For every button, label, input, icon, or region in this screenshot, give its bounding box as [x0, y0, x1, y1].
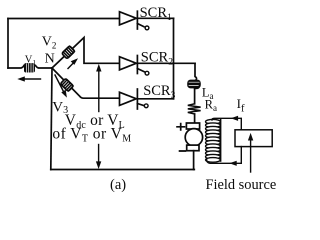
wire left rail [7, 19, 9, 69]
svg-text:SCR3: SCR3 [143, 83, 175, 101]
wire top rail [8, 18, 120, 20]
measurement arrow up [98, 70, 100, 112]
current arrow phase A [22, 78, 41, 80]
wire Ra to motor [194, 114, 196, 123]
svg-text:(a): (a) [110, 177, 126, 193]
wire SCR1 cathode to right rail [137, 17, 173, 19]
inductor La [187, 80, 201, 89]
motor M armature [186, 123, 199, 129]
winding V3 [60, 78, 73, 91]
svg-text:SCR1: SCR1 [140, 5, 172, 23]
current arrow phase C [55, 75, 64, 92]
svg-text:SCR2: SCR2 [141, 50, 173, 68]
SCR1 [120, 12, 137, 25]
field source arrow [250, 139, 252, 173]
field source box [235, 130, 272, 147]
SCR2 [120, 57, 137, 70]
svg-text:Ra: Ra [205, 98, 217, 114]
wire branch V3 [52, 68, 120, 98]
wire SCR2 cathode and load tap [137, 62, 195, 64]
wire box bottom to coil [207, 147, 242, 164]
field current arrow head bottom [229, 161, 236, 166]
label minus [179, 150, 187, 152]
current arrow phase B [68, 62, 75, 69]
svg-text:N: N [45, 52, 55, 67]
wire bottom rail [51, 169, 195, 171]
svg-text:Field source: Field source [206, 177, 277, 193]
wire right rail [173, 18, 175, 99]
svg-text:of VT or VM: of VT or VM [52, 126, 131, 145]
node N [51, 67, 53, 69]
wire field coil top to box [212, 118, 241, 130]
resistor Ra [188, 104, 201, 114]
wire La to Ra [194, 89, 196, 104]
wire neutral riser [51, 68, 52, 170]
wire motor to bottom rail [193, 151, 195, 170]
If arrow head [231, 116, 238, 121]
wire load branch down to La [195, 63, 197, 80]
label plus [176, 123, 185, 131]
svg-text:V1: V1 [25, 55, 37, 68]
winding V2 [62, 46, 75, 59]
wire phase A to node N [8, 66, 52, 69]
field coil [206, 119, 221, 162]
svg-text:V2: V2 [42, 35, 57, 51]
measurement arrow down [98, 145, 100, 164]
wire SCR3 cathode [137, 98, 173, 100]
wire branch V2 [52, 38, 120, 69]
winding V1 [24, 63, 35, 72]
SCR3 [120, 92, 137, 105]
svg-text:If: If [237, 96, 245, 114]
